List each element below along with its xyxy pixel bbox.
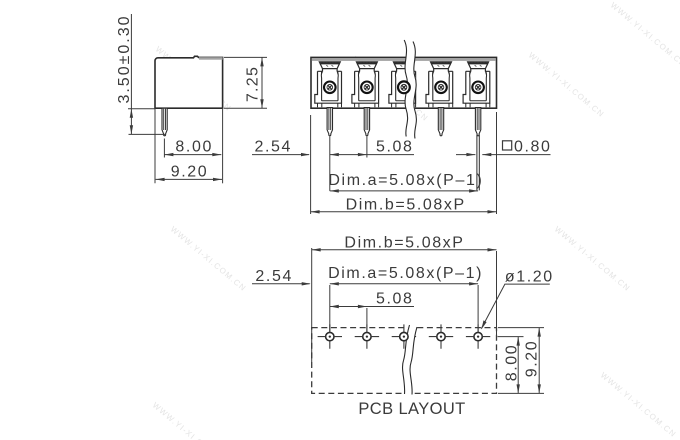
dimension 5.08 bottom: [330, 290, 414, 308]
svg-text:2.54: 2.54: [255, 139, 293, 156]
dimension Dim.b bottom: [312, 235, 497, 252]
svg-text:Dim.b=5.08xP: Dim.b=5.08xP: [346, 197, 466, 214]
svg-text:PCB LAYOUT: PCB LAYOUT: [358, 400, 465, 418]
dimension 5.08 (front): [330, 139, 414, 157]
svg-text:ø1.20: ø1.20: [505, 268, 554, 285]
pin 4: [438, 108, 443, 136]
dimension 8.00 (layout): [503, 337, 520, 394]
hole 5: [466, 324, 490, 348]
svg-text:8.00: 8.00: [503, 344, 520, 382]
extension line: front block right edge: [496, 112, 498, 214]
unit 3 screw head redrawn over break: [398, 81, 410, 93]
terminal unit 1: [315, 62, 342, 108]
extension line: front block left edge: [310, 115, 312, 214]
PCB outline (dashed): [312, 328, 497, 394]
dimension 2.54 bottom: [252, 268, 311, 286]
hole 1: [318, 324, 342, 348]
svg-text:5.08: 5.08: [376, 139, 414, 156]
side view body: [155, 56, 223, 108]
extension line: pin 2 centre: [366, 137, 368, 158]
svg-text:Dim.a=5.08x(P–1): Dim.a=5.08x(P–1): [328, 265, 483, 282]
dimension Dim.a top: [328, 172, 483, 193]
hole 3: [392, 324, 416, 348]
terminal unit 2: [352, 62, 379, 108]
svg-text:0.80: 0.80: [514, 139, 552, 156]
extension line: layout bottom right: [498, 392, 544, 394]
extension line: layout top right: [498, 327, 544, 329]
svg-text:3.50±0.30: 3.50±0.30: [116, 14, 133, 103]
terminal unit 5: [463, 62, 490, 108]
extension line: hole row right: [498, 336, 524, 338]
svg-text:Dim.a=5.08x(P–1): Dim.a=5.08x(P–1): [328, 172, 483, 189]
svg-text:9.20: 9.20: [524, 340, 541, 378]
side view pin: [162, 108, 167, 136]
svg-text:7.25: 7.25: [245, 66, 262, 102]
dimension 9.20 (layout): [524, 328, 541, 394]
svg-text:2.54: 2.54: [255, 268, 293, 285]
svg-text:Dim.b=5.08xP: Dim.b=5.08xP: [344, 235, 464, 252]
terminal unit 4: [426, 62, 453, 108]
leader ø1.20: [481, 268, 553, 329]
hole 3 redrawn over break: [400, 332, 408, 340]
extension line: hole 2: [366, 308, 368, 332]
svg-text:5.08: 5.08: [376, 290, 414, 307]
pin 5 (full length): [475, 108, 480, 191]
svg-text:9.20: 9.20: [171, 163, 209, 180]
dimension 8.00: [164, 139, 221, 158]
break lines (PCB layout): [403, 325, 417, 396]
watermark texts: [151, 1, 680, 440]
dimension 3.50±0.30: [116, 14, 166, 134]
hole 2: [355, 324, 379, 348]
dimension Dim.b top: [311, 197, 497, 214]
extension line: layout right edge: [496, 251, 498, 337]
dimension Dim.a bottom: [328, 265, 483, 286]
extension line: pin 1 centre: [329, 137, 331, 191]
dimension 9.20: [155, 108, 223, 183]
svg-text:8.00: 8.00: [175, 139, 213, 156]
hole 4: [429, 324, 453, 348]
break lines (front view): [404, 40, 416, 139]
extension line: layout left edge: [311, 248, 313, 362]
front view block body: [311, 57, 497, 108]
pin 1: [327, 108, 332, 136]
dimension square 0.80: [456, 139, 552, 157]
extension line: hole 1: [329, 285, 331, 332]
dimension 2.54 (front): [252, 139, 310, 157]
pin 2: [364, 108, 369, 136]
dimension 7.25: [224, 57, 267, 108]
extension line: hole 5: [477, 285, 479, 332]
terminal unit 3: [389, 62, 416, 108]
